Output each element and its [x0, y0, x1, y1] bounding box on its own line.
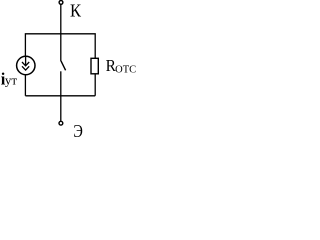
wire from terminal K down to top bus [60, 4, 62, 34]
switch S1 upper wire from top bus [60, 34, 62, 61]
terminal E (emitter pin) [59, 121, 63, 125]
current source I1 arrowhead chevron 2 [22, 66, 29, 70]
switch S1 open blade [61, 61, 66, 70]
current source I1 arrowhead chevron 1 [22, 62, 29, 66]
wire from current source bottom to bottom bus [24, 75, 26, 96]
resistor R1 body [91, 58, 98, 74]
switch S1 lower wire to bottom bus [60, 71, 62, 96]
wire from resistor bottom to bottom bus [94, 74, 96, 96]
svg-text:Э: Э [73, 121, 83, 141]
svg-text:ут: ут [5, 73, 18, 88]
current source I1 circle [17, 56, 35, 74]
wire bottom bus [25, 95, 95, 97]
wire from bottom bus down to terminal E [60, 96, 62, 122]
terminal K (collector pin) [59, 1, 63, 5]
wire top bus (left corner above current source to right corner above resistor) [25, 34, 95, 59]
svg-text:ОТС: ОТС [115, 64, 136, 75]
current source I1 arrow shaft [25, 56, 27, 65]
svg-text:К: К [70, 0, 81, 20]
